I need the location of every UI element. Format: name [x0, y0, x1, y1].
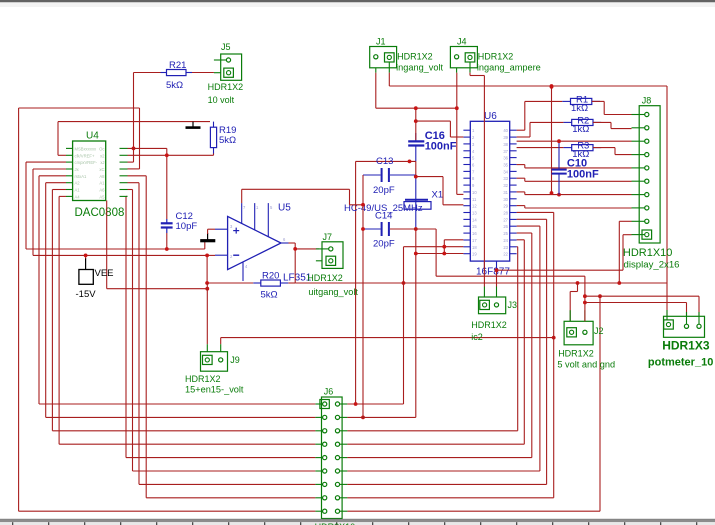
svg-text:20pF: 20pF: [373, 239, 395, 250]
wire U6 to J8 pin8: [517, 206, 632, 208]
svg-text:22: 22: [503, 252, 508, 257]
wire dac output U4 pin L4 to op-amp inverting input: [33, 169, 207, 255]
wire gnd bus bottom to J6 pin L9: [19, 510, 316, 512]
resistor R1: [562, 94, 600, 114]
svg-text:MSBxxxxxx: MSBxxxxxx: [75, 146, 98, 151]
wire gnd bus vertical x=19: [18, 108, 20, 511]
svg-text:15: 15: [472, 224, 477, 229]
wire branch to U6 row2: [416, 121, 464, 137]
svg-text:27: 27: [503, 217, 508, 222]
svg-text:R20: R20: [262, 271, 279, 282]
svg-text:U4: U4: [86, 131, 99, 142]
wire R19 top gnd rail: [58, 122, 210, 156]
wire +input to ground: [208, 229, 215, 234]
svg-text:5kΩ: 5kΩ: [261, 290, 278, 301]
wire J9 square pin net: [206, 283, 208, 344]
svg-text:J4: J4: [457, 37, 467, 47]
svg-text:1kΩ: 1kΩ: [572, 124, 589, 135]
junction -input: [205, 254, 209, 258]
svg-text:xC: xC: [99, 167, 104, 172]
svg-text:R21: R21: [169, 60, 186, 71]
junction J9 net: [205, 287, 209, 291]
junction feedback at J9 branch: [205, 281, 209, 285]
wire to potmeter pin3: [585, 296, 699, 316]
svg-text:VEE: VEE: [95, 268, 114, 279]
wire U6 to J8 pin3: [517, 140, 632, 142]
wire R2 to J8 pin2: [593, 122, 632, 128]
wire U6 L18 to crystal rail: [416, 253, 464, 255]
svg-text:25: 25: [503, 231, 508, 236]
wire J6 R4 to U6 R16: [347, 240, 524, 444]
wire J1 circle to node: [376, 73, 457, 109]
wire to potmeter pin2: [585, 303, 687, 317]
svg-text:A1: A1: [75, 188, 81, 193]
wire J9 circle pin to J6 row8 riser: [221, 338, 554, 345]
junction feedback at J6R1 riser: [402, 281, 406, 285]
junction feedback at J8 pin9 riser: [617, 281, 621, 285]
svg-text:potmeter_10: potmeter_10: [648, 357, 713, 369]
svg-text:40: 40: [503, 128, 508, 133]
junction crystal gnd at J6 R2: [361, 416, 365, 420]
svg-text:19: 19: [472, 252, 477, 257]
wire J6 R6 to U6 R14: [347, 226, 540, 471]
svg-text:J6: J6: [324, 387, 334, 397]
svg-text:x2: x2: [100, 153, 105, 158]
junction C10 bottom: [557, 193, 561, 197]
connector J6 HDR2X10: [315, 387, 347, 519]
junction U6 bottom pin2: [495, 268, 499, 272]
wire U4 bottom pin to J9 net: [107, 201, 208, 289]
svg-text:29: 29: [503, 204, 508, 209]
junction C16 bottom: [408, 160, 412, 164]
svg-text:12: 12: [472, 204, 477, 209]
wire U4 pin L8 to J6 L4: [59, 196, 315, 444]
wire C12 bottom to gnd rail: [166, 233, 168, 249]
junction J9 line at riser: [552, 336, 556, 340]
wire output to J7: [295, 248, 319, 250]
svg-text:11: 11: [472, 197, 477, 202]
wire U4 pin R5 to J6 L8: [128, 176, 316, 498]
svg-text:uitgang_volt: uitgang_volt: [308, 287, 358, 297]
svg-text:5kΩ: 5kΩ: [219, 135, 236, 146]
capacitor C14: [363, 211, 416, 250]
svg-text:A5: A5: [99, 194, 105, 199]
junction J1sq net bottom: [550, 191, 554, 195]
svg-text:J3: J3: [508, 300, 518, 310]
wire U4 pin L3 to gnd rail: [26, 162, 205, 249]
svg-text:38: 38: [503, 142, 508, 147]
svg-text:28: 28: [503, 211, 508, 216]
wire U4 pin L7 to J6 L3: [52, 190, 315, 431]
junction crystal rail L18: [414, 252, 418, 256]
op-amp dac U4 DAC0808: [66, 131, 128, 201]
wire crystal branch to U6 osc2: [416, 177, 464, 205]
capacitor C16: [408, 130, 457, 161]
svg-text:J5: J5: [221, 42, 231, 52]
junction R9 riser top: [598, 294, 602, 298]
svg-text:HDR1X2: HDR1X2: [558, 349, 594, 359]
wire J6 R2 riser crystal rail: [347, 416, 415, 418]
connector J4: [450, 37, 477, 73]
wire feedback bottom: [207, 243, 295, 283]
connector J1: [370, 37, 397, 73]
wire U6 R2 to R2 resistor: [517, 122, 564, 137]
wire U6 R1 to R1 resistor: [517, 101, 563, 130]
junction C12 lead at R2 row: [165, 153, 169, 157]
svg-text:Oc: Oc: [99, 146, 104, 151]
svg-text:J9: J9: [230, 355, 240, 365]
ground near R19: [186, 122, 201, 128]
svg-text:10pF: 10pF: [176, 221, 198, 232]
wire U6 to J8 pin5: [517, 165, 632, 168]
svg-text:A8: A8: [99, 174, 105, 179]
svg-text:C14: C14: [375, 211, 392, 222]
op-amp U5 LF351: [215, 203, 289, 281]
wire R21 output to J5: [190, 72, 214, 74]
junction J1 sq at riser: [550, 85, 554, 89]
connector J9: [201, 344, 240, 371]
svg-text:clk/VREF+: clk/VREF+: [75, 153, 95, 158]
wire C16 lead up to J1-J4 net: [415, 108, 417, 140]
wire R1 to J8 pin1: [592, 101, 632, 114]
svg-text:37: 37: [503, 149, 508, 154]
wire R3 to U6: [517, 147, 564, 149]
svg-text:5 volt and gnd: 5 volt and gnd: [557, 360, 615, 370]
wire J4 circle down to U6 osc row: [457, 73, 464, 195]
wire U4 pin L5 to J6 L1: [39, 176, 315, 404]
wire U4 R2 to R19 bottom: [128, 153, 214, 155]
junction C14 left: [361, 227, 365, 231]
wire J4 square to J3 through U6: [470, 73, 484, 287]
wire J6 R9 to right riser: [347, 296, 600, 511]
svg-text:5kΩ: 5kΩ: [166, 80, 183, 91]
connector J2: [564, 310, 603, 345]
wire crystal left rail: [362, 175, 364, 417]
capacitor C13: [363, 156, 416, 196]
wire J1 square long net: [389, 73, 667, 283]
svg-text:HDR1X3: HDR1X3: [662, 339, 710, 353]
junction VEE rail: [84, 254, 88, 258]
wire VEE to rail: [85, 255, 87, 258]
wire feedback long line to potmeter pin1: [295, 283, 667, 316]
connector J5: [214, 42, 242, 80]
wire R21 to U4 R1/R3: [128, 73, 164, 163]
wire crystal right rail down: [415, 229, 417, 417]
junction J6 R1 net at riser: [354, 402, 358, 406]
resistor R2: [563, 115, 601, 134]
wire C14 row extension: [390, 228, 436, 230]
svg-text:32: 32: [503, 183, 508, 188]
junction J2 pin2 a: [583, 294, 587, 298]
svg-text:17: 17: [472, 238, 477, 243]
svg-text:HDR1X2: HDR1X2: [185, 374, 221, 384]
junction crystal rail C14: [414, 227, 418, 231]
svg-text:39: 39: [503, 135, 508, 140]
svg-text:18: 18: [472, 245, 477, 250]
wire U6 bottom pin2 to J8 pin10: [497, 235, 632, 271]
svg-text:20pF: 20pF: [373, 185, 395, 196]
connector J7: [316, 232, 343, 268]
svg-text:HDR1X2: HDR1X2: [478, 51, 514, 61]
svg-text:16: 16: [472, 231, 477, 236]
wire U4 pin R8 to J6 L5: [126, 196, 315, 457]
svg-text:ingang_volt: ingang_volt: [396, 63, 443, 73]
wire J6 R5 to U6 R15: [347, 233, 531, 458]
microcontroller U6 16F877: [463, 111, 516, 270]
svg-text:rstxA1: rstxA1: [75, 174, 88, 179]
junction C10 top: [557, 139, 561, 143]
svg-text:cmpxVREF-: cmpxVREF-: [75, 160, 98, 165]
resistor R20: [253, 271, 288, 301]
svg-text:A2: A2: [75, 181, 81, 186]
svg-text:DAC0808: DAC0808: [75, 207, 125, 219]
svg-text:13: 13: [472, 211, 477, 216]
crystal X1 HC-49/US 25MHz: [404, 175, 443, 229]
ground at op-amp non-inverting input: [200, 233, 215, 241]
svg-text:HDR1X2: HDR1X2: [397, 51, 433, 61]
wire U4 pin R7 to J6 L6: [128, 190, 316, 472]
svg-text:HDR1X2: HDR1X2: [307, 273, 343, 283]
svg-text:HDR1X10: HDR1X10: [623, 247, 673, 259]
wire U6 bottom pin to J3: [496, 270, 498, 287]
junction C12 gnd: [165, 247, 169, 251]
svg-text:ingang_ampere: ingang_ampere: [477, 63, 541, 73]
junction L16 drop a: [442, 245, 446, 249]
wire U4 pin L6 to J6 L2: [46, 183, 316, 418]
window chrome bottom scrollbar: [0, 519, 715, 520]
capacitor C10: [552, 141, 599, 194]
junction J2 pin2 b: [583, 301, 587, 305]
svg-text:J1: J1: [376, 37, 386, 47]
svg-text:C13: C13: [376, 156, 393, 167]
svg-text:26: 26: [503, 224, 508, 229]
svg-text:24: 24: [503, 238, 508, 243]
svg-text:34: 34: [503, 169, 508, 174]
connector HDR1X3 potmeter: [664, 310, 705, 337]
junction C16 at J1-J4 net: [414, 106, 418, 110]
svg-text:A1: A1: [99, 181, 105, 186]
wire J6 R3 to U6 R17: [347, 247, 517, 431]
svg-text:J8: J8: [642, 96, 652, 106]
wire C10 gnd riser: [551, 86, 553, 195]
wire U4 pin R6 to J6 L7: [128, 183, 316, 485]
wire top gnd to U4 pin R4: [19, 108, 140, 169]
wire C14 branch to J2 pin2: [436, 229, 585, 321]
svg-text:A4: A4: [75, 194, 81, 199]
svg-text:J7: J7: [323, 232, 333, 242]
wire J6 R1 riser to U6 L17: [347, 247, 463, 404]
svg-text:ic2: ic2: [471, 332, 483, 342]
connector J8 HDR1X10: [632, 96, 661, 244]
svg-text:33: 33: [503, 176, 508, 181]
wire op-amp power pin to crystal rail: [242, 189, 363, 205]
wire inverting input node: [207, 255, 215, 283]
wire C16 bottom net: [356, 161, 416, 404]
resistor R3: [563, 141, 601, 161]
svg-text:A6: A6: [99, 188, 105, 193]
svg-text:HDR1X2: HDR1X2: [471, 320, 507, 330]
junction output: [293, 247, 297, 251]
wire J8 pin9 riser: [619, 221, 631, 283]
svg-text:23: 23: [503, 245, 508, 250]
junction crystal left rail: [361, 203, 365, 207]
capacitor C12: [161, 211, 198, 233]
junction crystal right: [414, 175, 418, 179]
svg-text:-15V: -15V: [76, 289, 97, 300]
resistor R19: [210, 122, 236, 154]
svg-text:U5: U5: [278, 203, 291, 214]
wire R3 to J8 pin4: [593, 148, 632, 155]
wire J6 R8 to U6 R12: [347, 212, 553, 497]
wire J6 R7 to U6 R13: [347, 219, 546, 484]
svg-text:31: 31: [503, 190, 508, 195]
wire U4 R1 to C12 top: [128, 148, 167, 219]
resistor R21: [161, 60, 193, 91]
svg-text:30: 30: [503, 197, 508, 202]
svg-text:X1: X1: [432, 190, 444, 201]
svg-text:14: 14: [472, 217, 477, 222]
junction feedback at J2 branch: [576, 281, 580, 285]
svg-text:display_2x16: display_2x16: [624, 260, 680, 271]
junction C16 branch: [414, 119, 418, 123]
junction L16 drop b: [442, 252, 446, 256]
svg-text:xJ: xJ: [100, 160, 104, 165]
junction C10 riser top: [550, 84, 554, 88]
wire U6 to J8 pin7: [517, 192, 632, 195]
wire J2 pin1 branch: [570, 283, 577, 321]
svg-text:15+en15-_volt: 15+en15-_volt: [185, 384, 244, 394]
wire U6 to J8 pin6: [517, 178, 632, 181]
junction J1-J4: [455, 106, 459, 110]
svg-text:36: 36: [503, 156, 508, 161]
svg-text:1kΩ: 1kΩ: [571, 103, 588, 114]
svg-text:10 volt: 10 volt: [208, 95, 235, 105]
svg-text:100nF: 100nF: [567, 169, 599, 181]
svg-text:35: 35: [503, 163, 508, 168]
power symbol VEE -15V: [76, 258, 114, 300]
svg-text:HDR1X2: HDR1X2: [208, 82, 244, 92]
svg-text:100nF: 100nF: [425, 141, 457, 153]
wire U6 L16 drop: [444, 240, 463, 254]
svg-text:J2: J2: [594, 326, 604, 336]
svg-text:U6: U6: [484, 111, 497, 122]
connector J3: [479, 287, 518, 314]
svg-text:10: 10: [472, 190, 477, 195]
junction R21 net at R1: [132, 147, 136, 151]
